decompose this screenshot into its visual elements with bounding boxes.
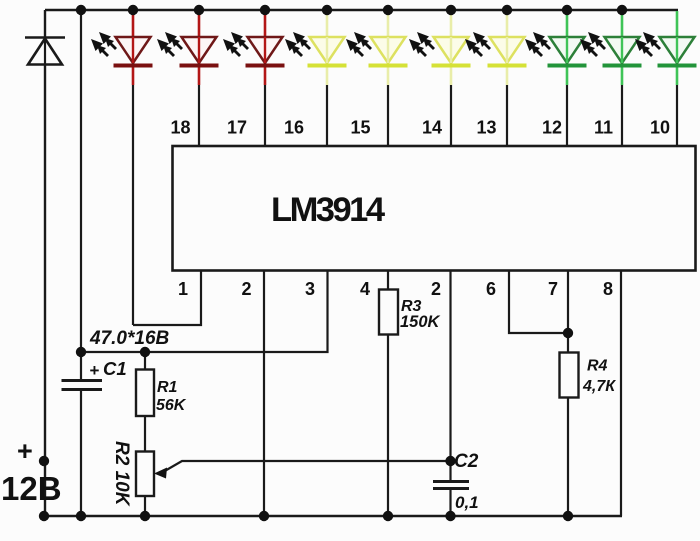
svg-text:C1: C1 bbox=[103, 358, 127, 379]
node junction at 44,516 bbox=[39, 511, 49, 521]
led HL5 (yellow) bbox=[369, 11, 408, 85]
potentiometer R2 body bbox=[136, 452, 154, 497]
svg-text:15: 15 bbox=[350, 118, 370, 138]
svg-text:+: + bbox=[90, 361, 100, 380]
node junction at 568,333 bbox=[563, 328, 573, 338]
svg-text:1: 1 bbox=[178, 279, 188, 299]
node junction at 388,10 bbox=[383, 5, 393, 15]
svg-text:4,7К: 4,7К bbox=[582, 378, 616, 395]
node junction at 388,516 bbox=[383, 511, 393, 521]
svg-text:10: 10 bbox=[650, 118, 670, 138]
svg-text:11: 11 bbox=[594, 118, 613, 138]
led HL5 emission arrows bbox=[346, 32, 371, 56]
svg-text:0,1: 0,1 bbox=[455, 493, 479, 512]
svg-text:LM3914: LM3914 bbox=[271, 191, 385, 229]
node junction at 567,10 bbox=[562, 5, 572, 15]
svg-text:3: 3 bbox=[305, 279, 315, 299]
node junction at 81,352 bbox=[76, 347, 86, 357]
capacitor C2 bbox=[433, 482, 469, 489]
node junction at 450.5,461 bbox=[445, 456, 455, 466]
wire led HL8 cathode to pin 12 bbox=[566, 85, 568, 147]
node junction at 327,10 bbox=[322, 5, 332, 15]
node junction at 264,516 bbox=[259, 511, 269, 521]
wire led HL10 cathode to pin 10 bbox=[676, 85, 678, 147]
wire C1 branch vertical bbox=[80, 10, 82, 379]
led HL8 emission arrows bbox=[525, 32, 550, 56]
led HL3 (red) bbox=[246, 11, 285, 85]
wire pin 6 lead bbox=[509, 271, 568, 333]
node junction at 622,10 bbox=[617, 5, 627, 15]
node junction at 568,516 bbox=[563, 511, 573, 521]
wire led HL1 cathode to pin 1 elbow bbox=[132, 85, 134, 325]
resistor R1 bbox=[136, 370, 154, 417]
wire pin 7 lead to R4 bbox=[567, 271, 569, 352]
svg-text:R1: R1 bbox=[157, 379, 178, 396]
led HL9 (green) bbox=[603, 11, 642, 85]
wire led HL7 cathode to pin 13 bbox=[506, 85, 508, 147]
led HL4 emission arrows bbox=[285, 32, 310, 56]
svg-text:R4: R4 bbox=[587, 358, 608, 375]
wire pin 4 lead to R3 bbox=[387, 271, 389, 290]
wire V+ node to R1 bbox=[144, 352, 146, 370]
wire led HL5 cathode to pin 15 bbox=[387, 85, 389, 147]
wire pin 8 lead to ground bbox=[620, 271, 622, 516]
node junction at 81,10 bbox=[76, 5, 86, 15]
svg-text:+: + bbox=[17, 436, 33, 466]
svg-text:2: 2 bbox=[241, 279, 251, 299]
wire led HL3 cathode to pin 17 bbox=[264, 85, 266, 147]
wire bottom ground rail bbox=[44, 515, 622, 518]
wire R1 to R2 bbox=[144, 416, 146, 452]
svg-text:18: 18 bbox=[170, 118, 190, 138]
led HL7 emission arrows bbox=[465, 32, 490, 56]
wire led HL2 cathode to pin 18 bbox=[198, 85, 200, 147]
svg-text:17: 17 bbox=[227, 118, 247, 138]
svg-text:12В: 12В bbox=[1, 470, 62, 507]
led HL2 emission arrows bbox=[157, 32, 182, 56]
node junction at 199,10 bbox=[194, 5, 204, 15]
svg-text:16: 16 bbox=[284, 118, 304, 138]
node junction at 450.5,516 bbox=[445, 511, 455, 521]
node junction at 44,461 bbox=[39, 456, 49, 466]
node junction at 133,10 bbox=[128, 5, 138, 15]
led HL6 (yellow) bbox=[432, 11, 471, 85]
capacitor C1 bbox=[62, 381, 103, 390]
wire led HL9 cathode to pin 11 bbox=[621, 85, 623, 147]
led HL4 (yellow) bbox=[308, 11, 347, 85]
node junction at 265,10 bbox=[260, 5, 270, 15]
wire led HL6 cathode to pin 14 bbox=[450, 85, 452, 147]
svg-text:14: 14 bbox=[422, 118, 442, 138]
svg-text:C2: C2 bbox=[454, 451, 479, 472]
led HL2 (red) bbox=[180, 11, 219, 85]
led HL3 emission arrows bbox=[223, 32, 248, 56]
resistor R4 bbox=[560, 353, 579, 398]
wire R3 to ground bbox=[387, 334, 389, 516]
svg-text:56K: 56K bbox=[156, 397, 187, 414]
led HL10 emission arrows bbox=[635, 32, 660, 56]
led HL10 (green) bbox=[658, 11, 697, 85]
node junction at 507,10 bbox=[502, 5, 512, 15]
wire C2 to ground bbox=[449, 489, 451, 516]
svg-text:8: 8 bbox=[603, 279, 613, 299]
led HL7 (yellow) bbox=[488, 11, 527, 85]
svg-text:7: 7 bbox=[548, 279, 558, 299]
svg-text:13: 13 bbox=[476, 118, 496, 138]
node junction at 145,352 bbox=[140, 347, 150, 357]
svg-text:150K: 150K bbox=[400, 313, 441, 331]
wire pin 3 lead + V+ supply branch bbox=[81, 271, 328, 352]
wire top supply rail bbox=[45, 9, 678, 11]
svg-text:2: 2 bbox=[431, 279, 441, 299]
wire left rail (12V +) bbox=[44, 10, 46, 516]
svg-text:12: 12 bbox=[542, 118, 562, 138]
wire pin 1 lead bbox=[133, 271, 201, 325]
led HL6 emission arrows bbox=[409, 32, 434, 56]
wire R4 to ground bbox=[567, 397, 569, 516]
svg-text:47.0*16В: 47.0*16В bbox=[89, 328, 170, 349]
potentiometer R2 wiper arrow bbox=[154, 461, 451, 479]
diode VD1 bbox=[25, 38, 65, 65]
resistor R3 bbox=[379, 290, 398, 335]
wire led HL4 cathode to pin 16 bbox=[326, 85, 328, 147]
led HL1 (red) bbox=[114, 11, 153, 85]
IC U1 LM3914 body bbox=[173, 146, 696, 271]
svg-text:4: 4 bbox=[360, 279, 370, 299]
wire pin 5 lead to C2 node bbox=[449, 271, 451, 480]
wire R2 to ground bbox=[144, 496, 146, 516]
node junction at 451,10 bbox=[446, 5, 456, 15]
svg-text:6: 6 bbox=[486, 279, 496, 299]
svg-text:R2 10K: R2 10K bbox=[111, 441, 132, 507]
node junction at 145,516 bbox=[140, 511, 150, 521]
node junction at 81,516 bbox=[76, 511, 86, 521]
wire pin 2 lead to ground bbox=[263, 271, 265, 516]
led HL8 (green) bbox=[548, 11, 587, 85]
led HL1 emission arrows bbox=[91, 32, 116, 56]
led HL9 emission arrows bbox=[580, 32, 605, 56]
